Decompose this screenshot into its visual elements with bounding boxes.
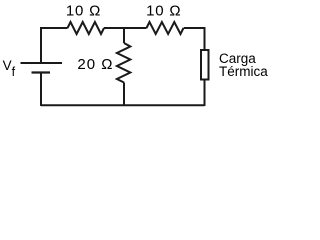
node middle: wire from top wire down to R3: [123, 28, 125, 43]
resistor R2 10 ohm (top right, zigzag): [147, 22, 184, 34]
load rectangle (Carga Termica): [201, 50, 209, 80]
battery Vf long plate: [21, 62, 63, 64]
wire battery negative down: [40, 73, 42, 107]
wire top-right: R2 to right corner and down to load: [184, 28, 205, 49]
svg-text:Vf: Vf: [3, 58, 16, 79]
svg-text:10 Ω: 10 Ω: [66, 3, 101, 20]
wire bottom rail: [41, 104, 205, 106]
wire middle branch bottom: [123, 83, 125, 107]
wire top-left: battery positive up and across to R1: [41, 28, 68, 62]
svg-text:Térmica: Térmica: [219, 64, 268, 79]
resistor R1 10 ohm (top left, zigzag): [68, 22, 104, 34]
battery Vf short plate: [32, 71, 51, 73]
wire load bottom to bottom rail: [204, 80, 206, 106]
wire between R1 and R2 through middle node: [104, 27, 147, 29]
resistor R3 20 ohm (vertical zigzag): [117, 43, 130, 83]
svg-text:20 Ω: 20 Ω: [77, 56, 113, 73]
svg-text:10 Ω: 10 Ω: [146, 3, 181, 20]
